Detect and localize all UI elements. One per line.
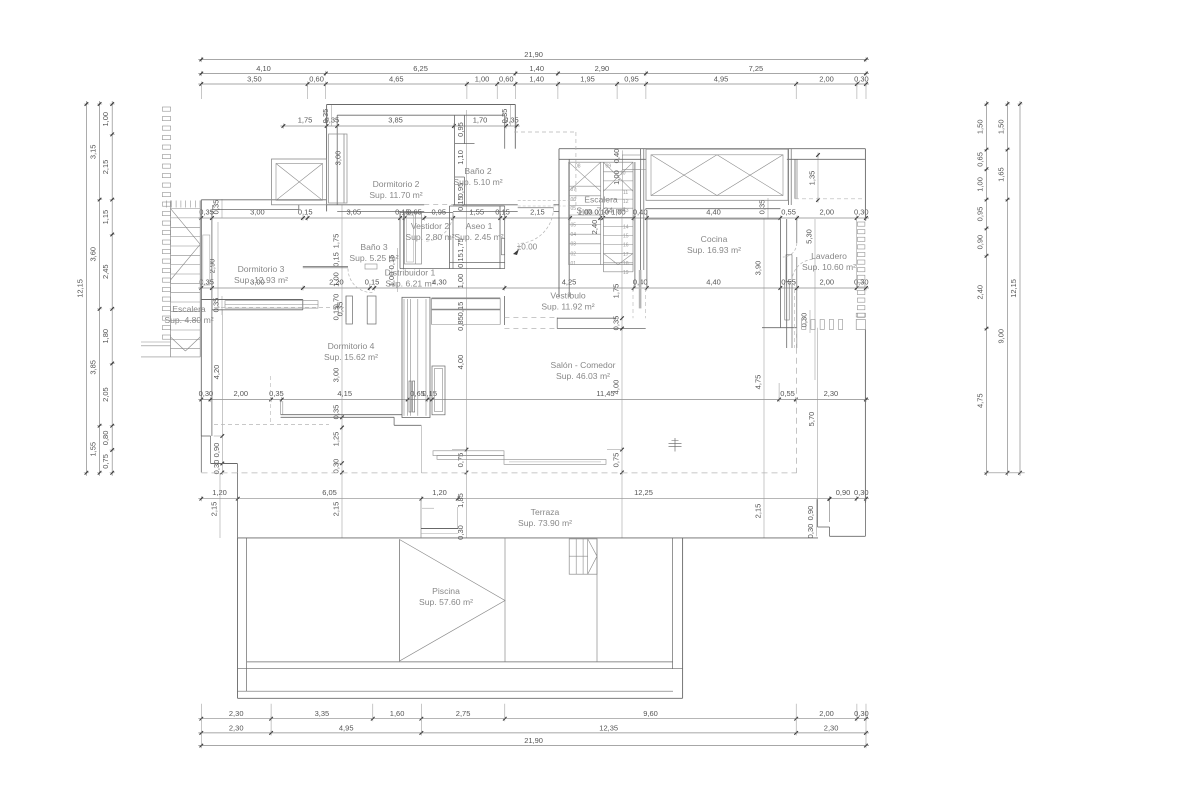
dimension top row 2 (198, 73, 869, 75)
vdim 0,35 dorm3 bot (221, 296, 223, 315)
closet X dorm3 (272, 159, 327, 205)
svg-text:0,15: 0,15 (495, 208, 510, 217)
pool triangle (400, 540, 506, 662)
svg-text:01: 01 (571, 261, 577, 267)
svg-text:4,00: 4,00 (456, 355, 465, 370)
svg-text:1,50: 1,50 (976, 119, 985, 134)
svg-text:0,30: 0,30 (332, 459, 341, 474)
svg-text:0,55: 0,55 (781, 208, 796, 217)
dashed porch roof top (514, 131, 576, 133)
interior stair escalera (558, 149, 560, 297)
svg-text:Sup. 15.62 m²: Sup. 15.62 m² (324, 352, 378, 362)
svg-text:Sup. 2.45 m²: Sup. 2.45 m² (454, 232, 503, 242)
svg-text:0,95: 0,95 (431, 208, 446, 217)
dimension interior row y288 (198, 287, 869, 289)
entry door (518, 200, 576, 202)
wall aseo left (449, 206, 451, 269)
svg-text:Sup. 11.70 m²: Sup. 11.70 m² (369, 190, 422, 200)
vdim 4,20 left wall (221, 310, 223, 472)
closet dormitorio 2 (329, 134, 348, 203)
svg-text:Distribuidor 1: Distribuidor 1 (385, 268, 436, 278)
svg-text:12,25: 12,25 (634, 488, 653, 497)
dimension top row total 21,90 (198, 59, 869, 61)
svg-text:2,05: 2,05 (101, 387, 110, 402)
svg-text:Cocina: Cocina (701, 234, 728, 244)
svg-text:2,75: 2,75 (456, 709, 471, 718)
svg-text:0,15: 0,15 (332, 252, 341, 267)
svg-text:2,90: 2,90 (595, 64, 610, 73)
svg-text:4,00: 4,00 (612, 380, 621, 395)
svg-text:0,15: 0,15 (456, 196, 465, 211)
wall left bottom notch (201, 435, 210, 437)
dashed door dorm2 (424, 204, 453, 206)
wall cocina lavadero (779, 219, 781, 328)
svg-text:18: 18 (623, 261, 629, 267)
svg-text:9,00: 9,00 (997, 329, 1006, 344)
wall right outer (864, 149, 866, 221)
svg-text:1,15: 1,15 (101, 210, 110, 225)
svg-text:10: 10 (620, 171, 626, 177)
svg-text:12,15: 12,15 (1009, 279, 1018, 298)
wall left outer (200, 200, 202, 436)
svg-text:17: 17 (623, 252, 629, 258)
svg-text:Salón - Comedor: Salón - Comedor (551, 360, 616, 370)
svg-text:0,60: 0,60 (309, 75, 324, 84)
svg-text:Sup. 73.90 m²: Sup. 73.90 m² (518, 518, 572, 528)
svg-text:Dormitorio 3: Dormitorio 3 (238, 264, 285, 274)
svg-text:Sup. 16.93 m²: Sup. 16.93 m² (687, 245, 741, 255)
svg-text:Sup. 2.80 m²: Sup. 2.80 m² (405, 232, 454, 242)
svg-text:6,05: 6,05 (322, 488, 337, 497)
vdim 0,35 topblock (331, 105, 333, 127)
svg-text:19: 19 (623, 270, 629, 276)
svg-text:0,65: 0,65 (976, 152, 985, 167)
svg-text:3,50: 3,50 (247, 75, 262, 84)
svg-text:1,55: 1,55 (89, 442, 98, 457)
vdim 0,35 cocina (767, 198, 769, 219)
interior vdim ticks x818 (817, 152, 819, 157)
svg-text:1,40: 1,40 (529, 75, 544, 84)
svg-text:Vestidor 2: Vestidor 2 (411, 221, 449, 231)
svg-text:2,30: 2,30 (824, 723, 839, 732)
vdim 2,90 dorm3 (217, 222, 219, 310)
svg-text:5,30: 5,30 (805, 229, 814, 244)
interior vdim x466 (466, 110, 468, 538)
svg-text:2,40: 2,40 (976, 285, 985, 300)
wall dorm4 bottom (281, 414, 402, 416)
vdim 0,35 dorm4 (345, 296, 347, 322)
dimension bottom row 2 (198, 732, 869, 734)
svg-text:2,40: 2,40 (590, 220, 599, 235)
svg-text:03: 03 (571, 242, 577, 248)
svg-text:0,15: 0,15 (456, 253, 465, 268)
wall cocina top (646, 208, 781, 210)
svg-text:1,10: 1,10 (456, 150, 465, 165)
svg-text:1,40: 1,40 (529, 64, 544, 73)
svg-text:0,85: 0,85 (456, 316, 465, 331)
duct below stair (632, 288, 634, 318)
wall dorm4 top pieces (211, 300, 213, 310)
svg-text:02: 02 (571, 251, 577, 257)
svg-text:04: 04 (571, 232, 577, 238)
svg-text:1,55: 1,55 (469, 208, 484, 217)
svg-text:4,75: 4,75 (976, 393, 985, 408)
svg-text:1,70: 1,70 (473, 116, 488, 125)
svg-text:1,25: 1,25 (332, 432, 341, 447)
wall dorm3 bottom (201, 299, 302, 301)
svg-text:Lavadero: Lavadero (811, 251, 847, 261)
svg-text:4,95: 4,95 (339, 723, 354, 732)
svg-text:2,15: 2,15 (332, 502, 341, 517)
wall distribuidor south (432, 297, 501, 299)
interior vdim x817.5 5,70 (817, 328, 819, 499)
svg-text:Aseo 1: Aseo 1 (466, 221, 493, 231)
tick 0,75 (621, 447, 623, 452)
svg-text:1,60: 1,60 (390, 709, 405, 718)
svg-text:Sup. 11.92 m²: Sup. 11.92 m² (541, 302, 594, 312)
ticks left notch (221, 433, 223, 438)
svg-text:2,15: 2,15 (754, 504, 763, 519)
svg-text:2,30: 2,30 (824, 389, 839, 398)
svg-text:1,65: 1,65 (997, 167, 1006, 182)
svg-text:1,00: 1,00 (332, 272, 341, 287)
svg-text:4,75: 4,75 (754, 375, 763, 390)
interior vdim x764 3,90 4,75 2,15 (763, 218, 765, 538)
svg-text:0,30: 0,30 (199, 389, 214, 398)
wall lavadero top (794, 159, 796, 199)
terrace vdim 2,15 left (219, 473, 221, 538)
svg-text:Escalera: Escalera (172, 304, 206, 314)
terrace step left (420, 499, 422, 538)
svg-text:1,85: 1,85 (456, 493, 465, 508)
svg-text:0,55: 0,55 (780, 389, 795, 398)
wall vestidor partition (399, 211, 401, 268)
svg-text:1,75: 1,75 (612, 284, 621, 299)
wall dorm3 top (201, 199, 326, 201)
vdim 0,30 lavadero (809, 310, 811, 333)
svg-text:0,80: 0,80 (101, 431, 110, 446)
kitchen window hatch box (646, 149, 788, 200)
svg-text:4,10: 4,10 (256, 64, 271, 73)
svg-text:06: 06 (571, 197, 577, 203)
wall aseo bottom (450, 261, 505, 263)
svg-text:1,20: 1,20 (432, 488, 447, 497)
vent hatch right wall (857, 222, 865, 226)
svg-text:0,30: 0,30 (800, 313, 809, 328)
wall aseo right (499, 206, 501, 269)
door arc bano3 (348, 269, 373, 293)
svg-text:0,95: 0,95 (624, 75, 639, 84)
interior vdim x818 1,35 (817, 155, 819, 200)
svg-text:0,30: 0,30 (854, 75, 869, 84)
wall dorm2 bano2 partition (454, 115, 456, 205)
terrace right steps (817, 499, 819, 527)
dimension interior row y218 (198, 217, 869, 219)
wall aseo top (400, 212, 453, 214)
svg-text:1,75: 1,75 (298, 116, 313, 125)
dashed roof overhang (202, 472, 797, 474)
svg-text:1,00: 1,00 (456, 274, 465, 289)
right columns bottom connector (984, 472, 1025, 474)
pool enclosure (237, 538, 239, 698)
dimension interior row y399 (198, 399, 869, 401)
salon glass wall (433, 451, 504, 456)
svg-text:2,45: 2,45 (101, 264, 110, 279)
svg-text:6,25: 6,25 (413, 64, 428, 73)
dashed vestibulo salon boundary (504, 317, 557, 319)
interior vdim x815 5,30 (814, 219, 816, 380)
wall pair window right (788, 149, 790, 205)
svg-text:2,30: 2,30 (229, 709, 244, 718)
wall bano3 south (303, 265, 348, 267)
svg-text:4,15: 4,15 (337, 389, 352, 398)
vdim x397 bano3 wall (397, 248, 399, 292)
svg-text:21,90: 21,90 (524, 50, 543, 59)
svg-text:2,30: 2,30 (229, 723, 244, 732)
dimension row y126 top block (280, 125, 519, 127)
door arc lavadero (783, 243, 797, 257)
dimension bottom row 1 (198, 718, 869, 720)
svg-text:2,15: 2,15 (210, 502, 219, 517)
svg-text:3,00: 3,00 (332, 368, 341, 383)
svg-text:±0.00: ±0.00 (517, 243, 538, 252)
svg-text:07: 07 (571, 187, 577, 193)
svg-text:12: 12 (623, 199, 629, 205)
door arc vestidor (424, 213, 453, 242)
witness 0,55 row399 (778, 383, 780, 401)
exterior stair escalera (166, 201, 168, 208)
interior vdim x342 (341, 205, 343, 538)
svg-text:0,35: 0,35 (269, 389, 284, 398)
svg-text:0,30: 0,30 (806, 524, 815, 539)
wall top right wing outer (559, 148, 865, 150)
svg-text:Piscina: Piscina (432, 586, 460, 596)
svg-text:Baño 2: Baño 2 (464, 166, 491, 176)
svg-text:0,95: 0,95 (976, 207, 985, 222)
svg-text:3,85: 3,85 (388, 116, 403, 125)
dimension bottom row total 21,90 (198, 745, 869, 747)
svg-text:1,35: 1,35 (808, 171, 817, 186)
pool stair box (569, 539, 597, 574)
exterior wall hatch column (162, 107, 170, 111)
svg-text:1,20: 1,20 (212, 488, 227, 497)
svg-text:3,00: 3,00 (334, 151, 343, 166)
svg-text:3,60: 3,60 (89, 247, 98, 262)
svg-text:0,30: 0,30 (854, 208, 869, 217)
svg-text:2,15: 2,15 (101, 160, 110, 175)
svg-text:14: 14 (623, 225, 629, 231)
svg-text:0,75: 0,75 (456, 453, 465, 468)
svg-text:Escalera: Escalera (584, 195, 618, 205)
svg-text:1,50: 1,50 (997, 119, 1006, 134)
svg-text:3,35: 3,35 (315, 709, 330, 718)
svg-text:4,20: 4,20 (212, 365, 221, 380)
vdim 0,35 dorm3 top (221, 199, 223, 218)
level mark entry (513, 249, 519, 255)
svg-text:9,60: 9,60 (643, 709, 658, 718)
svg-text:0,75: 0,75 (101, 454, 110, 469)
witness 2,00 x856 (856, 218, 858, 288)
svg-text:1,00: 1,00 (475, 75, 490, 84)
svg-text:Sup. 6.21 m²: Sup. 6.21 m² (385, 279, 434, 289)
svg-text:2,15: 2,15 (530, 208, 545, 217)
svg-text:05: 05 (571, 223, 577, 229)
svg-text:4,95: 4,95 (714, 75, 729, 84)
svg-text:7,25: 7,25 (749, 64, 764, 73)
svg-text:Sup. 10.60 m²: Sup. 10.60 m² (802, 262, 856, 272)
svg-text:0,90: 0,90 (976, 235, 985, 250)
wall top block outline (327, 104, 516, 106)
wall stair right (634, 162, 636, 288)
svg-text:0,30: 0,30 (854, 709, 869, 718)
svg-text:Sup. 46.03 m²: Sup. 46.03 m² (556, 371, 610, 381)
svg-text:1,00: 1,00 (976, 177, 985, 192)
svg-text:0,35: 0,35 (321, 109, 330, 124)
svg-text:0,40: 0,40 (612, 149, 621, 164)
svg-text:3,85: 3,85 (89, 360, 98, 375)
door jambs dorm4 south (409, 381, 411, 412)
svg-text:1,95: 1,95 (580, 75, 595, 84)
vdim 0,35 topblock right (510, 105, 512, 127)
pocket door salon west (402, 297, 430, 417)
svg-text:3,90: 3,90 (754, 261, 763, 276)
terrace vdim 0,75 and 4,00 (621, 216, 623, 538)
svg-text:0,90: 0,90 (212, 443, 221, 458)
terrace left edge (237, 473, 239, 538)
dimension left column fine (111, 101, 113, 476)
svg-text:0,90: 0,90 (836, 488, 851, 497)
svg-text:Sup. 57.60 m²: Sup. 57.60 m² (419, 597, 473, 607)
dimension terrace row y498 (198, 498, 869, 500)
svg-text:Sup. 5.25 m²: Sup. 5.25 m² (349, 253, 398, 263)
svg-text:15: 15 (623, 234, 629, 240)
svg-text:2,00: 2,00 (819, 208, 834, 217)
svg-text:12,15: 12,15 (75, 279, 84, 298)
svg-text:0,30: 0,30 (854, 488, 869, 497)
dashed dorm4 overhang (214, 424, 329, 426)
svg-text:Sup. 4.80 m²: Sup. 4.80 m² (164, 315, 213, 325)
dimension top row 3 (198, 83, 869, 85)
ticks x342 (341, 415, 343, 420)
svg-text:16: 16 (623, 243, 629, 249)
window dorm3 south (225, 301, 318, 308)
svg-text:0,60: 0,60 (499, 75, 514, 84)
svg-text:0,75: 0,75 (612, 453, 621, 468)
vent hatch lavadero bottom (802, 320, 806, 330)
terrace bottom edge (238, 537, 819, 539)
window dorm3 west (203, 235, 210, 285)
svg-text:2,00: 2,00 (819, 709, 834, 718)
svg-text:2,00: 2,00 (819, 75, 834, 84)
svg-text:1,80: 1,80 (101, 329, 110, 344)
svg-text:0,15: 0,15 (365, 278, 380, 287)
dimension left column total 12,15 (85, 101, 87, 476)
level mark cross (674, 438, 676, 452)
wall salon lavadero corner (762, 327, 797, 329)
svg-text:Sup. 5.10 m²: Sup. 5.10 m² (453, 177, 502, 187)
svg-text:Dormitorio 4: Dormitorio 4 (328, 341, 375, 351)
dimension right column fine (986, 101, 988, 476)
svg-text:0,35: 0,35 (758, 200, 767, 215)
svg-text:3,15: 3,15 (89, 144, 98, 159)
svg-text:21,90: 21,90 (524, 736, 543, 745)
dimension left column mid (99, 101, 101, 476)
svg-text:1,75: 1,75 (332, 234, 341, 249)
svg-text:4,65: 4,65 (389, 75, 404, 84)
svg-text:5,70: 5,70 (807, 412, 816, 427)
svg-text:Vestíbulo: Vestíbulo (550, 291, 586, 301)
svg-text:0,30: 0,30 (212, 460, 221, 475)
svg-text:0,30: 0,30 (854, 278, 869, 287)
door cocina bottom (786, 255, 792, 281)
svg-text:Terraza: Terraza (531, 507, 560, 517)
svg-text:Sup. 7.34 m²: Sup. 7.34 m² (576, 206, 625, 216)
svg-text:0,95: 0,95 (456, 122, 465, 137)
svg-text:3,05: 3,05 (346, 208, 361, 217)
svg-text:0,90: 0,90 (806, 506, 815, 521)
wall pair window left (640, 149, 642, 270)
dimension right column mid (1007, 101, 1009, 476)
svg-text:0,15: 0,15 (298, 208, 313, 217)
wall dorm2 bottom band (327, 204, 425, 206)
svg-text:3,00: 3,00 (250, 208, 265, 217)
vdim right steps 0,90 0,30 (816, 499, 818, 536)
svg-text:Dormitorio 2: Dormitorio 2 (373, 179, 420, 189)
closet vestidor 2 (405, 213, 422, 264)
dimension right column total 12,15 (1019, 101, 1021, 476)
svg-text:09: 09 (606, 164, 612, 170)
svg-text:Baño 3: Baño 3 (360, 242, 387, 252)
svg-text:12,35: 12,35 (599, 723, 618, 732)
svg-text:11: 11 (623, 190, 628, 196)
svg-text:0,35: 0,35 (336, 302, 345, 317)
cabinet salon west (432, 366, 445, 415)
dashed line dorm3 bottom (214, 306, 345, 308)
threshold bano3 (365, 264, 377, 269)
svg-text:Sup. 12.93 m²: Sup. 12.93 m² (234, 275, 288, 285)
interior vdim x617 (621, 150, 623, 216)
svg-text:1,00: 1,00 (101, 112, 110, 127)
svg-text:2,00: 2,00 (819, 278, 834, 287)
vdim 3,00 dorm2 (343, 134, 345, 204)
svg-text:4,40: 4,40 (706, 278, 721, 287)
svg-text:2,00: 2,00 (233, 389, 248, 398)
